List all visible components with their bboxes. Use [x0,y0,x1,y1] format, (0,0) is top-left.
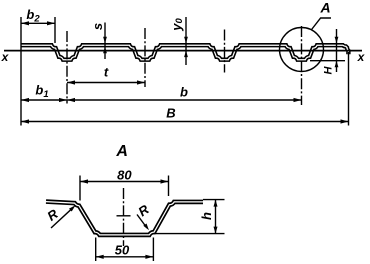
valley centerline 2 [144,28,146,87]
valley centerline 3 [224,30,226,73]
detail centerline horizontal tick [117,215,131,217]
svg-text:B: B [166,106,175,121]
valley centerline 1 [66,31,68,104]
dimension 80 [79,176,81,201]
dimension t (pitch) [67,82,145,84]
left edge extension line [20,17,22,126]
svg-text:H: H [322,65,334,74]
svg-text:x: x [357,50,366,64]
H bottom extension [310,60,345,62]
dimension b1 [21,99,67,101]
svg-text:x: x [1,50,10,64]
b2 right extension [54,17,56,43]
right edge extension line [348,52,350,126]
axis line x-x [4,50,362,52]
dimension h [203,199,225,201]
svg-text:b: b [180,85,188,100]
detail circle A [280,28,324,72]
detail A sheet section [46,202,203,235]
radius R right [137,215,147,229]
valley centerline 4 [301,26,303,105]
profiled sheet cross-section [21,45,348,60]
dimension b2 [21,22,55,24]
svg-text:A: A [319,0,330,16]
detail centerline vertical [123,188,125,246]
dimension 50 [95,238,97,262]
radius R left [51,207,74,228]
svg-text:50: 50 [115,242,130,257]
dimension B (overall width) [21,121,349,123]
svg-text:80: 80 [117,167,132,182]
leader to detail A [311,18,331,30]
svg-text:s: s [90,23,105,30]
dimension s (sheet thickness) [104,23,106,60]
svg-text:A: A [115,143,128,160]
svg-text:t: t [104,65,109,80]
dimension b [67,99,302,101]
dimension H (profile height) [336,29,338,72]
svg-text:h: h [199,212,214,220]
dimension y0 [185,17,187,65]
